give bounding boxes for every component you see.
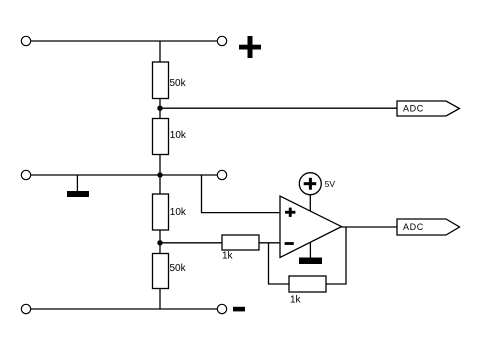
svg-text:50k: 50k [170, 78, 187, 89]
svg-text:50k: 50k [170, 263, 187, 274]
svg-text:ADC: ADC [403, 222, 424, 232]
svg-text:5V: 5V [325, 179, 336, 189]
svg-text:1k: 1k [290, 295, 302, 306]
svg-text:10k: 10k [170, 130, 187, 141]
svg-text:1k: 1k [222, 251, 234, 262]
svg-text:ADC: ADC [403, 104, 424, 114]
svg-text:10k: 10k [170, 207, 187, 218]
